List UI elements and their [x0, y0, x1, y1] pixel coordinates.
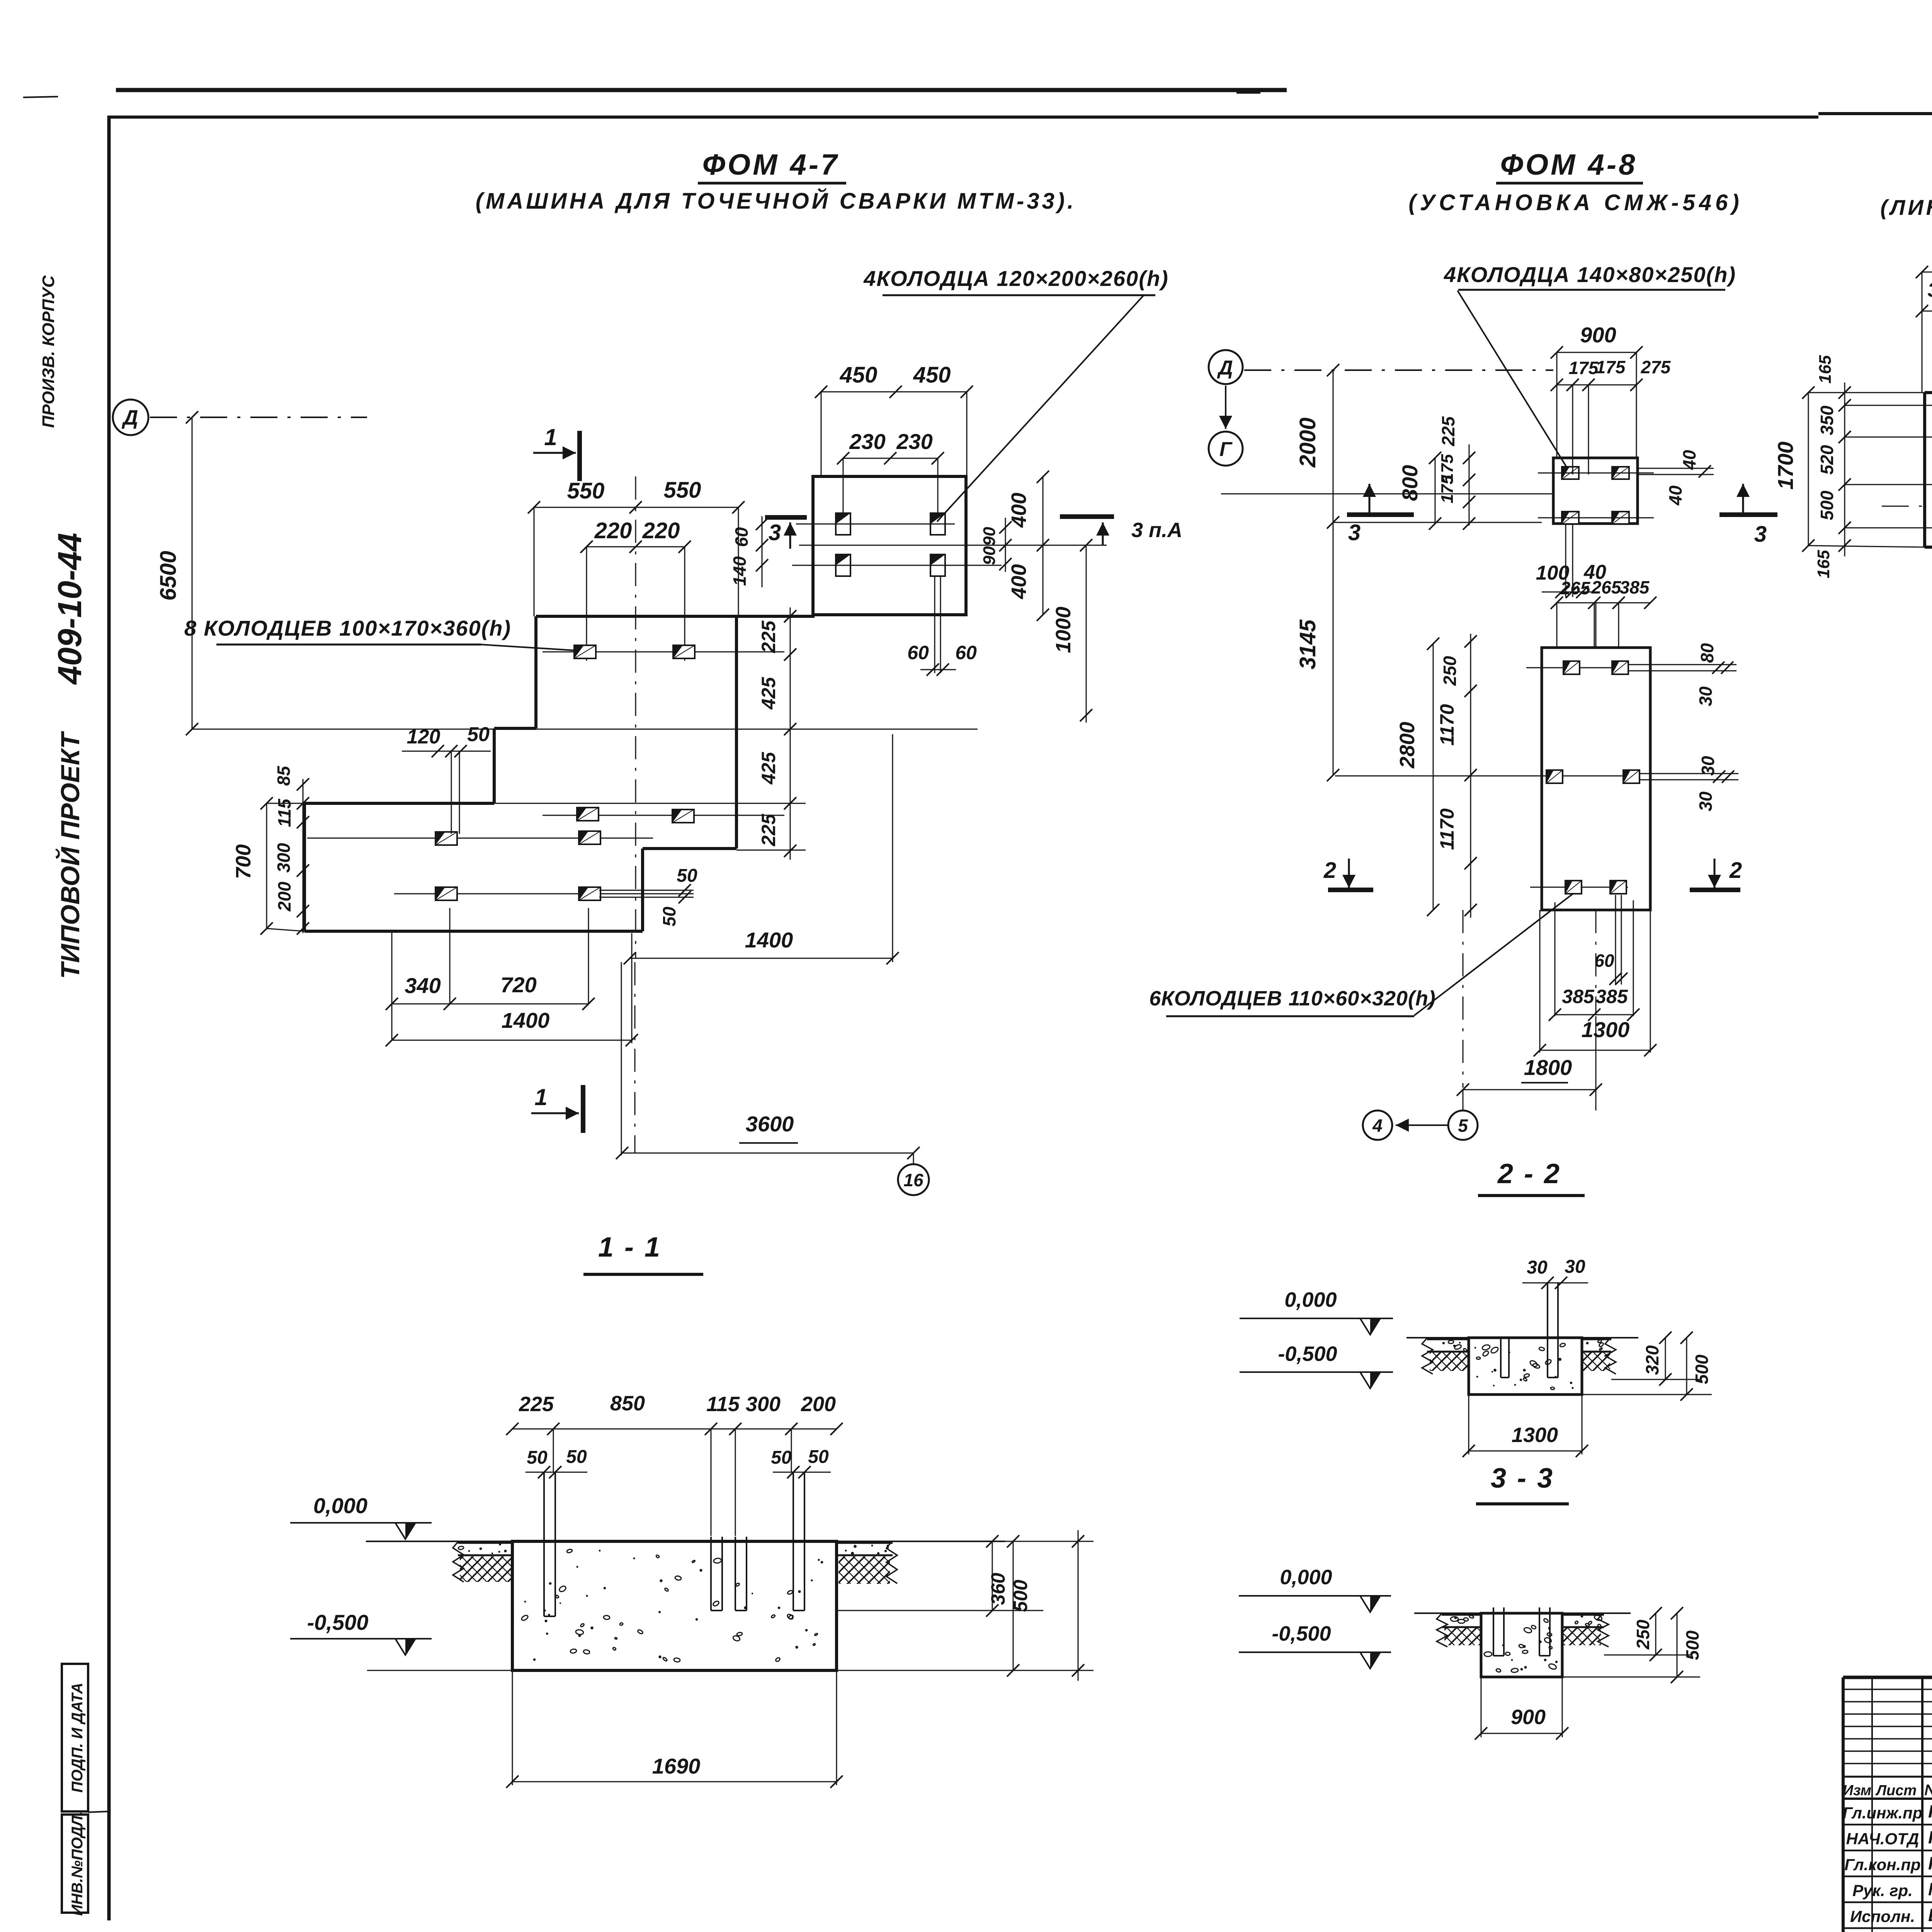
ext verticals bottom [392, 908, 632, 1043]
svg-text:500: 500 [1682, 1630, 1702, 1660]
svg-text:115: 115 [274, 798, 294, 827]
svg-text:500: 500 [1010, 1580, 1031, 1612]
svg-text:50: 50 [677, 866, 697, 886]
svg-text:50: 50 [467, 723, 490, 746]
sec1 dim 225-850-115-300-200 [506, 1392, 843, 1435]
well row lines upper pad [792, 524, 1107, 565]
label 8 kolodtsev 100x170x360 [184, 616, 580, 651]
svg-text:50: 50 [771, 1447, 792, 1468]
well row y2169 [307, 831, 653, 845]
svg-text:ФОМ 4-8: ФОМ 4-8 [1500, 148, 1638, 181]
dim 900 [1551, 323, 1643, 359]
svg-text:200: 200 [801, 1393, 836, 1416]
sec2 ground line [1406, 1337, 1638, 1338]
left pad ext lines [267, 803, 304, 931]
svg-text:1800: 1800 [1524, 1055, 1572, 1080]
well row y1131 [1845, 431, 1932, 443]
svg-text:360: 360 [987, 1573, 1009, 1605]
svg-text:230: 230 [849, 429, 885, 454]
svg-text:350: 350 [1817, 405, 1837, 435]
svg-text:400: 400 [1007, 493, 1031, 528]
dim 700 [232, 797, 273, 935]
svg-text:250: 250 [1633, 1619, 1653, 1650]
svg-text:-0,500: -0,500 [1278, 1342, 1337, 1366]
FOM 4-7 left pad outline [304, 803, 643, 931]
FOM 4-8 lower pad outline [1542, 648, 1650, 910]
well slot down 60-60 [907, 576, 977, 676]
section label 2-2 [1478, 1158, 1585, 1196]
svg-text:1000: 1000 [1052, 607, 1075, 653]
svg-text:3: 3 [1348, 520, 1361, 545]
svg-text:50: 50 [659, 906, 679, 927]
svg-text:0,000: 0,000 [1284, 1288, 1337, 1311]
svg-text:(ЛИНЕЙНАЯ УСТАНОВКА И РАМА Д: (ЛИНЕЙНАЯ УСТАНОВКА И РАМА ДЛЯ ПОДВЕСКИ … [1880, 195, 1932, 219]
dim 1300 [1534, 1017, 1656, 1056]
svg-text:1170: 1170 [1436, 704, 1458, 746]
section label 3-3 [1476, 1463, 1569, 1504]
svg-text:1: 1 [544, 424, 557, 450]
dim 175-175-225 left [1438, 416, 1475, 530]
svg-text:1300: 1300 [1582, 1017, 1630, 1042]
svg-text:900: 900 [1511, 1706, 1546, 1729]
dim 140-60 small [730, 516, 768, 587]
svg-text:Изм: Изм [1843, 1782, 1871, 1799]
dim 2800 [1396, 638, 1439, 916]
extension line y1887 [192, 729, 978, 730]
svg-text:30: 30 [1696, 686, 1716, 706]
section cut 2 right [1690, 858, 1742, 890]
svg-text:50: 50 [566, 1447, 587, 1467]
svg-text:2000: 2000 [1295, 417, 1320, 468]
sec3 left slab [1437, 1613, 1481, 1647]
dim 2000 [1295, 364, 1339, 781]
label 4 kolodtsa 140x80x250 [1444, 262, 1736, 471]
svg-text:720: 720 [500, 973, 536, 997]
dim 1000 right [1052, 539, 1092, 723]
svg-text:310: 310 [1928, 279, 1932, 301]
svg-text:ПРОИЗВ. КОРПУС: ПРОИЗВ. КОРПУС [39, 275, 58, 428]
dim chain 225-425-425-225 [758, 607, 796, 860]
svg-text:ТИПОВОЙ ПРОЕКТ: ТИПОВОЙ ПРОЕКТ [55, 731, 85, 979]
lower pad wells row1 [1526, 661, 1628, 674]
extension lines top dims [534, 476, 738, 958]
svg-text:30: 30 [1565, 1257, 1585, 1277]
svg-text:1400: 1400 [502, 1008, 550, 1032]
sec2 dim 1300 [1463, 1395, 1588, 1457]
section cut 3-3 left [1347, 484, 1414, 545]
sec1 right level ticks [367, 1530, 1094, 1681]
svg-text:0,000: 0,000 [1280, 1566, 1332, 1589]
svg-text:80: 80 [1697, 643, 1717, 663]
svg-text:550: 550 [567, 478, 605, 503]
ext line pad-left [1221, 494, 1553, 522]
svg-text:2: 2 [1729, 858, 1742, 883]
sec2 left slab [1422, 1338, 1469, 1374]
svg-text:3600: 3600 [746, 1112, 794, 1136]
dim 250-1170-1170 chain [1436, 634, 1477, 918]
svg-text:175: 175 [1569, 358, 1599, 378]
sec1 ext verticals from dims [553, 1429, 791, 1536]
well channel 120-50 left [402, 723, 491, 834]
svg-text:225: 225 [1438, 416, 1458, 446]
dim 220+220 [580, 518, 691, 553]
svg-text:220: 220 [642, 518, 680, 543]
svg-text:1300: 1300 [1512, 1423, 1558, 1447]
label 4 kolodtsa 120x200x260 [863, 266, 1168, 522]
svg-text:40: 40 [1665, 485, 1685, 506]
svg-text:0,000: 0,000 [313, 1493, 367, 1518]
FOM 4-7 subtitle [476, 188, 1077, 214]
svg-text:225: 225 [519, 1393, 554, 1416]
well slot 80-30 [1628, 643, 1736, 706]
FOM 4-7 middle pad outline [494, 616, 815, 931]
sec3 foundation body [1481, 1613, 1562, 1677]
well row y1049 [1845, 399, 1932, 412]
svg-text:4: 4 [1372, 1116, 1383, 1136]
well slot 40-40 [1638, 450, 1714, 506]
drawing frame top border [107, 114, 1932, 117]
dim 90-90 chain [980, 518, 1012, 572]
FOM 4-8 subtitle [1408, 190, 1743, 215]
level 0.000 sec1 [290, 1493, 432, 1539]
sec1 dim 360-500 [837, 1535, 1043, 1677]
dim 265-265-385 [1551, 577, 1656, 648]
pad centerlines 4-9 [1882, 462, 1932, 657]
section cut 3-3 right [1719, 484, 1777, 547]
svg-text:ГЛАЗУНОВ: ГЛАЗУНОВ [1928, 1827, 1932, 1847]
svg-text:Рук. гр.: Рук. гр. [1852, 1881, 1913, 1900]
svg-text:40: 40 [1679, 450, 1699, 470]
ext verticals 900 [1557, 352, 1636, 474]
svg-text:90: 90 [980, 546, 999, 565]
extension lines 450/230 [821, 392, 967, 514]
svg-text:115: 115 [706, 1393, 740, 1416]
svg-text:300: 300 [274, 843, 294, 872]
dim 550+550 [528, 478, 745, 514]
svg-text:3 - 3: 3 - 3 [1491, 1463, 1554, 1494]
sec3 dim 900 [1475, 1677, 1568, 1740]
svg-text:265: 265 [1560, 578, 1591, 598]
dim 100-40 below [1536, 525, 1606, 598]
anchor wells upper pad [836, 513, 945, 576]
svg-text:340: 340 [405, 973, 440, 998]
FOM 4-9 subtitle [1880, 195, 1932, 219]
svg-text:РЫЖАК: РЫЖАК [1928, 1801, 1932, 1821]
dim chain 85-115-300-200 [274, 765, 309, 935]
svg-text:520: 520 [1817, 445, 1837, 474]
dim 800 [1398, 452, 1441, 530]
dim 5900 [1916, 240, 1932, 278]
axis circle 16 [898, 1153, 929, 1195]
svg-text:1690: 1690 [652, 1754, 701, 1778]
FOM 4-7 title [698, 148, 846, 183]
svg-text:30: 30 [1698, 756, 1718, 776]
well slot 50-50 right [599, 866, 697, 927]
sec1 foundation body [512, 1541, 837, 1670]
svg-text:Гл.кон.пр: Гл.кон.пр [1844, 1855, 1920, 1874]
svg-text:Д: Д [122, 406, 138, 429]
section cut 3 left [765, 517, 807, 549]
sec3 anchor wells [1493, 1607, 1550, 1656]
svg-text:550: 550 [664, 478, 701, 503]
svg-text:6КОЛОДЦЕВ 110×60×320(h): 6КОЛОДЦЕВ 110×60×320(h) [1149, 987, 1436, 1010]
svg-text:850: 850 [610, 1392, 645, 1415]
dim 1400 right [624, 734, 899, 964]
sec3 dim 250-500 [1562, 1607, 1702, 1683]
section cut 1 bottom [531, 1084, 583, 1133]
svg-text:№документ: №документ [1924, 1782, 1932, 1799]
sec3 right slab [1562, 1613, 1609, 1647]
svg-text:Исполн.: Исполн. [1850, 1907, 1915, 1925]
svg-text:ИНВ.№ПОДЛ.: ИНВ.№ПОДЛ. [69, 1811, 86, 1916]
level 0.000 sec2 [1240, 1288, 1393, 1335]
margin box ИНВ. № ПОДЛ. [62, 1811, 109, 1916]
level -0.500 sec1 [290, 1610, 432, 1655]
section cut 3 п.А [1060, 517, 1182, 545]
svg-text:4КОЛОДЦА 120×200×260(h): 4КОЛОДЦА 120×200×260(h) [863, 266, 1168, 291]
svg-text:ЕРОХИНА: ЕРОХИНА [1928, 1905, 1932, 1925]
svg-text:800: 800 [1398, 465, 1422, 501]
svg-text:-0,500: -0,500 [307, 1610, 369, 1634]
svg-text:140: 140 [730, 556, 750, 586]
sec1 ground line [366, 1541, 1005, 1542]
title block header row [1843, 1782, 1932, 1799]
axis Г circle mid [1209, 386, 1243, 466]
svg-text:30: 30 [1527, 1257, 1548, 1278]
dim 6500 vertical [156, 411, 198, 735]
svg-text:409-10-44: 409-10-44 [51, 533, 88, 685]
svg-text:500: 500 [1817, 490, 1837, 520]
svg-text:-0,500: -0,500 [1272, 1622, 1331, 1645]
svg-text:1: 1 [534, 1084, 547, 1110]
svg-text:3145: 3145 [1295, 619, 1320, 670]
svg-text:Г: Г [1219, 438, 1233, 461]
lower pad wells row3 [1530, 881, 1628, 894]
svg-text:2: 2 [1323, 858, 1336, 883]
svg-text:2800: 2800 [1396, 722, 1419, 769]
dim 450+450 [815, 362, 973, 398]
svg-text:8 КОЛОДЦЕВ 100×170×360(h): 8 КОЛОДЦЕВ 100×170×360(h) [184, 616, 511, 640]
dim 1700 [1773, 386, 1815, 552]
svg-text:Лист: Лист [1875, 1782, 1917, 1799]
well slot 30-30 mid [1639, 756, 1738, 811]
label 6 kolodtsev 110x60x320 [1149, 893, 1573, 1016]
level -0.500 sec2 [1240, 1342, 1393, 1388]
section label 1-1 [583, 1232, 703, 1274]
axis Д circle mid [1209, 350, 1243, 384]
svg-text:Д: Д [1217, 357, 1233, 379]
section cut 2 left [1323, 858, 1373, 890]
svg-text:(УСТАНОВКА СМЖ-546): (УСТАНОВКА СМЖ-546) [1408, 190, 1743, 215]
svg-text:425: 425 [758, 677, 779, 710]
svg-text:(МАШИНА ДЛЯ ТОЧЕЧНОЙ СВАРКИ: (МАШИНА ДЛЯ ТОЧЕЧНОЙ СВАРКИ МТМ-33). [476, 188, 1077, 214]
sec2 foundation body [1469, 1338, 1582, 1395]
svg-text:4КОЛОДЦА 140×80×250(h): 4КОЛОДЦА 140×80×250(h) [1444, 262, 1736, 287]
svg-text:250: 250 [1440, 656, 1460, 686]
axis circles 4-5 [1363, 1111, 1478, 1140]
FOM 4-7 upper-right pad outline [813, 476, 966, 615]
svg-text:90: 90 [980, 527, 999, 546]
well slot down 60 [1594, 895, 1628, 985]
dim 230+230 [837, 429, 944, 464]
ext lines left chain [1808, 393, 1925, 547]
dim chain 310-100-2080-100-720-100-2080-100-310 [1916, 279, 1932, 317]
svg-text:385: 385 [1595, 986, 1628, 1007]
svg-text:220: 220 [594, 518, 632, 543]
dim 400-400 chain [1007, 471, 1049, 621]
svg-text:60: 60 [731, 527, 752, 547]
svg-text:2 - 2: 2 - 2 [1497, 1158, 1561, 1189]
ext lines fom48 bottom [1463, 603, 1650, 1111]
thin connectors right chain [494, 803, 806, 850]
well row y1687 [543, 645, 784, 658]
dim 3600 [616, 962, 920, 1159]
svg-text:165: 165 [1814, 550, 1833, 578]
section cut 1 top [533, 424, 580, 481]
svg-text:385: 385 [1620, 577, 1650, 597]
dim 385+385 [1549, 986, 1639, 1021]
sheet top paper edge line [23, 90, 1287, 97]
svg-text:3 п.А: 3 п.А [1131, 519, 1182, 542]
svg-text:ФОМ 4-7: ФОМ 4-7 [702, 148, 840, 181]
svg-text:85: 85 [274, 765, 294, 786]
svg-text:60: 60 [955, 642, 977, 663]
svg-text:50: 50 [808, 1447, 829, 1467]
left pad wells rows [1845, 478, 1932, 534]
sec1 left slab [453, 1541, 512, 1582]
svg-text:200: 200 [274, 881, 294, 912]
FOM 4-8 upper pad outline [1553, 458, 1638, 524]
sec2 dim 320-500 [1582, 1332, 1712, 1401]
svg-text:1170: 1170 [1436, 808, 1458, 850]
ext verticals 5900 [1922, 272, 1932, 393]
svg-text:30: 30 [1696, 791, 1716, 811]
margin box ПОДП. И ДАТА [62, 1664, 88, 1811]
sec1 right slab [837, 1541, 897, 1584]
axis Д circle left [113, 400, 367, 435]
level 0.000 sec3 [1239, 1566, 1391, 1612]
svg-text:900: 900 [1580, 323, 1616, 347]
svg-text:175: 175 [1438, 475, 1457, 503]
svg-text:425: 425 [758, 752, 779, 785]
sec3 ground line [1414, 1612, 1631, 1614]
sec2 anchor wells [1501, 1283, 1558, 1378]
svg-text:1 - 1: 1 - 1 [598, 1232, 662, 1263]
svg-text:265: 265 [1591, 577, 1622, 597]
title block grid left [1843, 1677, 1932, 1932]
svg-text:1400: 1400 [745, 928, 793, 952]
svg-text:НАЧ.ОТД: НАЧ.ОТД [1846, 1830, 1919, 1848]
sec2 dim 30-30 [1522, 1257, 1588, 1289]
svg-text:3: 3 [769, 520, 781, 545]
svg-text:60: 60 [1594, 951, 1614, 971]
svg-text:120: 120 [407, 726, 440, 748]
sec1 dim 1690 [506, 1670, 843, 1788]
svg-text:Гл.инж.пр: Гл.инж.пр [1843, 1804, 1923, 1822]
svg-text:КАЛЬЧУК: КАЛЬЧУК [1928, 1853, 1932, 1873]
svg-text:225: 225 [758, 813, 779, 847]
sec1 anchor wells [544, 1472, 804, 1616]
svg-text:50: 50 [527, 1447, 548, 1468]
title block staff names [1843, 1801, 1932, 1932]
dim 1800 [1457, 1055, 1602, 1096]
dim 1400 bottom-left [386, 1008, 638, 1046]
svg-text:385: 385 [1562, 986, 1595, 1007]
svg-text:275: 275 [1641, 357, 1671, 377]
svg-text:175: 175 [1596, 357, 1626, 377]
svg-text:400: 400 [1007, 564, 1031, 599]
svg-text:3: 3 [1754, 522, 1767, 547]
dim 175-175-275 [1551, 357, 1671, 391]
sec1 dim 50-50 right [771, 1447, 831, 1478]
svg-text:6500: 6500 [156, 551, 181, 600]
FOM 4-8 title [1496, 148, 1643, 183]
upper pad wells 4-8 [1538, 467, 1654, 524]
svg-text:1700: 1700 [1773, 442, 1798, 490]
svg-text:225: 225 [758, 620, 779, 653]
svg-text:450: 450 [913, 362, 951, 388]
level -0.500 sec3 [1239, 1622, 1391, 1668]
svg-text:450: 450 [840, 362, 878, 388]
svg-text:500: 500 [1692, 1354, 1712, 1384]
svg-text:700: 700 [232, 844, 255, 879]
svg-text:320: 320 [1642, 1345, 1662, 1375]
lower pad wells row2 [1335, 770, 1639, 783]
svg-text:5: 5 [1458, 1116, 1468, 1136]
dim chain 165-350-520-500-165 [1814, 355, 1851, 578]
sec1 dim 50-50 left [526, 1447, 587, 1478]
drawing frame left border [107, 116, 111, 1920]
sec2 right slab [1582, 1338, 1616, 1374]
dim 3145 [1295, 619, 1320, 670]
svg-text:Маслобойщикова: Маслобойщикова [1928, 1879, 1932, 1899]
svg-text:230: 230 [896, 429, 932, 454]
well row y2313 [394, 887, 694, 900]
svg-text:60: 60 [907, 642, 929, 663]
axis dash line mid [1244, 369, 1553, 371]
svg-text:16: 16 [903, 1170, 923, 1190]
left stamp text 409-10-44 [39, 275, 88, 979]
FOM 4-9 plan outline [1925, 393, 1932, 554]
well row y2110 [543, 808, 784, 823]
svg-text:165: 165 [1816, 355, 1835, 384]
svg-text:300: 300 [746, 1393, 781, 1416]
svg-text:ПОДП. И ДАТА: ПОДП. И ДАТА [69, 1683, 86, 1793]
dim 340+720 [386, 973, 595, 1010]
